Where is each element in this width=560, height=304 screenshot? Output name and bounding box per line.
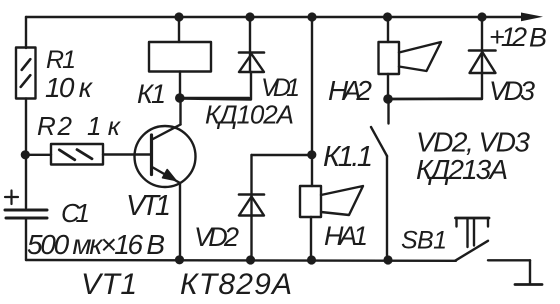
svg-text:R1: R1 [46,46,76,74]
svg-text:1 к: 1 к [87,111,122,141]
svg-text:VD1: VD1 [261,74,300,102]
svg-text:SB1: SB1 [401,227,447,255]
svg-text:VD3: VD3 [489,76,535,106]
svg-text:К1.1: К1.1 [323,141,373,173]
svg-text:В: В [529,23,547,53]
svg-text:НА1: НА1 [324,221,368,251]
svg-text:R2: R2 [37,111,73,141]
svg-text:КД102А: КД102А [205,100,294,130]
svg-text:С1: С1 [61,198,90,228]
svg-text:VD2, VD3: VD2, VD3 [416,127,530,158]
svg-text:КД213А: КД213А [416,154,508,185]
svg-text:НА2: НА2 [328,75,372,106]
svg-text:VT1: VT1 [81,268,137,301]
svg-text:VD2: VD2 [194,222,239,252]
svg-text:К1: К1 [137,79,166,109]
svg-text:+12: +12 [489,22,527,52]
svg-text:10 к: 10 к [45,72,94,103]
svg-text:500 мк×16 В: 500 мк×16 В [27,229,165,260]
svg-text:КТ829А: КТ829А [180,268,292,301]
svg-text:VT1: VT1 [126,190,171,222]
